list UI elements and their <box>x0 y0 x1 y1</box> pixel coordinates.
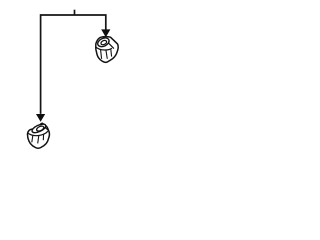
facet line 3 <box>42 134 44 140</box>
hole outer ring <box>31 122 47 134</box>
facet line 1 <box>32 135 33 142</box>
hole outer ring <box>96 36 110 48</box>
facet line 2 <box>106 50 107 59</box>
hole inner ring <box>100 40 107 46</box>
hole inner ring <box>36 125 45 132</box>
facet line 2 <box>38 136 39 144</box>
tick (stub) at top center <box>74 10 76 15</box>
nut bottom-left <box>27 122 49 148</box>
chamfer edge line <box>45 128 48 131</box>
arrowhead right <box>101 29 110 37</box>
nut body silhouette <box>96 37 118 63</box>
facet line 1 <box>101 50 102 59</box>
nut body silhouette <box>27 123 49 148</box>
nut top-right <box>96 36 119 62</box>
top face lower boundary <box>28 131 48 135</box>
top face lower boundary <box>96 47 112 50</box>
facet line 3 <box>110 49 113 56</box>
wire: top horizontal with left and right vertical drops <box>41 15 106 114</box>
chamfer edge line <box>109 43 114 49</box>
arrowhead left <box>36 114 45 122</box>
